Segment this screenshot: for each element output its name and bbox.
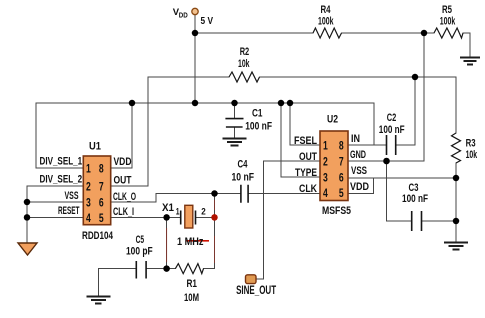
svg-text:2: 2 <box>86 181 91 193</box>
wire C5 right lead to R1 left node <box>146 268 167 270</box>
junction node rail/FSEL <box>287 100 294 107</box>
junction node rail/C1 <box>231 100 238 107</box>
wire R5 leads and drop to ground <box>424 33 470 56</box>
svg-text:DIV_SEL_2: DIV_SEL_2 <box>40 174 83 186</box>
resistor R5 100k <box>434 28 463 38</box>
svg-text:100 nF: 100 nF <box>379 124 405 136</box>
resistor R3 10k <box>452 133 461 163</box>
resistor R1 10M <box>175 264 203 274</box>
wire U1 OUT riser <box>111 77 148 186</box>
svg-text:4: 4 <box>86 213 91 225</box>
svg-text:6: 6 <box>99 197 104 209</box>
svg-text:X1: X1 <box>162 202 174 214</box>
svg-text:5: 5 <box>339 188 344 200</box>
junction node y77/C2 branch <box>412 74 419 81</box>
svg-text:RDD104: RDD104 <box>82 230 114 242</box>
svg-text:2: 2 <box>201 207 206 218</box>
junction node rail/VDD stem <box>192 100 199 107</box>
junction node CLK line/C4 <box>211 190 218 197</box>
svg-text:100 pF: 100 pF <box>126 246 153 258</box>
wire C5 left lead down to ground <box>98 269 136 296</box>
junction node rail/TYPE <box>278 100 285 107</box>
wire U2 VDD pin up to VSS line <box>348 178 374 194</box>
IC U1 RDD104 body <box>83 156 110 225</box>
wire R3 bottom to ground <box>455 163 457 242</box>
svg-text:CLK_I: CLK_I <box>113 206 134 218</box>
wire C2 right to R2/R3 line <box>396 77 415 145</box>
junction node rail/U1 VDD <box>129 100 136 107</box>
svg-text:10M: 10M <box>184 292 199 304</box>
ground below C1 <box>223 139 247 146</box>
wire C4 left lead <box>215 193 241 195</box>
svg-text:100 nF: 100 nF <box>402 193 428 205</box>
junction node R4/R5 <box>421 30 428 37</box>
junction node DIV_SEL_2/VSS <box>24 199 31 206</box>
svg-text:CLK_O: CLK_O <box>113 191 136 203</box>
svg-text:DD: DD <box>179 10 188 19</box>
svg-text:100k: 100k <box>318 16 334 28</box>
svg-text:R4: R4 <box>321 4 332 16</box>
wire U2 GND node down to C3 left <box>387 161 412 221</box>
svg-text:3: 3 <box>86 197 91 209</box>
svg-text:7: 7 <box>339 157 344 169</box>
svg-text:10k: 10k <box>466 149 478 161</box>
wire rail to U2 TYPE pin <box>281 103 320 177</box>
port SINE_OUT pad <box>246 275 257 284</box>
svg-text:VSS: VSS <box>65 190 79 202</box>
svg-text:CLK: CLK <box>299 183 317 195</box>
svg-text:SINE_OUT: SINE_OUT <box>236 283 276 297</box>
wire R4 right to R4/R5 junction <box>342 32 425 34</box>
red highlight on MHz label <box>186 240 209 242</box>
junction node VSS/RESET <box>24 214 31 221</box>
svg-text:C5: C5 <box>136 234 145 246</box>
svg-text:8: 8 <box>99 163 104 175</box>
svg-text:OUT: OUT <box>299 151 317 163</box>
svg-text:2: 2 <box>323 157 328 169</box>
junction node C3 right/ground <box>453 218 460 225</box>
svg-text:TYPE: TYPE <box>295 167 317 179</box>
wire X1 left node down to R1 left <box>166 217 168 268</box>
crystal X1 plates <box>181 211 196 225</box>
svg-text:100k: 100k <box>440 16 456 28</box>
junction node GND/C3 branch <box>383 158 390 165</box>
svg-text:GND: GND <box>350 149 366 161</box>
wire U1 VSS <box>27 201 83 203</box>
svg-text:C4: C4 <box>238 159 249 171</box>
wire y77 R2 to R3 corner <box>260 77 457 133</box>
svg-text:8: 8 <box>339 141 344 153</box>
svg-text:5: 5 <box>99 213 104 225</box>
svg-text:3: 3 <box>323 173 328 185</box>
wire y33 from VDD dot to R4 <box>195 32 313 34</box>
wire DIV_SEL_2 to left column <box>27 186 83 243</box>
svg-text:MSFS5: MSFS5 <box>322 205 351 217</box>
svg-text:6: 6 <box>339 173 344 185</box>
wire VDD rail y103 <box>36 102 374 104</box>
wire C3 right to ground node <box>422 220 457 222</box>
junction node VSS/R3 bottom <box>453 175 460 182</box>
svg-text:FSEL: FSEL <box>294 135 317 147</box>
power port VDD circle <box>192 8 198 14</box>
wire U1 CLK_I to X1 <box>111 216 181 218</box>
svg-text:DIV_SEL_1: DIV_SEL_1 <box>40 156 83 168</box>
wire rail to U1 VDD pin <box>111 103 132 168</box>
svg-text:10 nF: 10 nF <box>232 172 255 184</box>
svg-text:100 nF: 100 nF <box>245 121 272 133</box>
wire U1 CLK_O jog <box>111 194 215 203</box>
wire U1 RESET <box>27 216 83 218</box>
svg-text:R5: R5 <box>442 4 452 16</box>
red artifact on X1 left vertical <box>166 228 168 262</box>
ground below R3 / C3 <box>444 243 468 250</box>
svg-text:VDD: VDD <box>350 181 369 193</box>
crystal X1 body <box>185 205 193 228</box>
wire U2 OUT down to SINE_OUT <box>256 161 320 279</box>
svg-text:U1: U1 <box>89 141 101 153</box>
svg-text:1: 1 <box>323 141 328 153</box>
svg-text:R3: R3 <box>466 138 476 150</box>
svg-text:IN: IN <box>351 133 360 145</box>
capacitor C3 plates <box>412 211 422 231</box>
svg-text:1: 1 <box>86 163 91 175</box>
svg-text:VDD: VDD <box>114 156 132 168</box>
svg-text:R2: R2 <box>240 46 250 58</box>
junction node C5/R1 <box>163 265 170 272</box>
svg-text:OUT: OUT <box>114 175 132 187</box>
wire rail to U2 FSEL pin <box>290 103 320 145</box>
capacitor C1 plates <box>225 119 243 127</box>
junction node X1 right (red) <box>211 214 218 221</box>
svg-text:1: 1 <box>176 207 180 218</box>
junction node X1 left <box>163 214 170 221</box>
wire C1 stem <box>234 103 236 138</box>
wire U2 VSS pin to R3 bottom <box>348 177 456 179</box>
IC U2 MSFS5 body <box>320 131 348 201</box>
wire y77 line left of R2 <box>148 76 229 78</box>
red artifact on X1 right vertical <box>214 200 216 263</box>
wire rail end drop to IN line <box>373 103 375 145</box>
svg-text:C1: C1 <box>252 108 263 120</box>
svg-text:1 MHz: 1 MHz <box>177 236 204 248</box>
ground arrow below U1 left pins <box>18 243 37 255</box>
svg-text:VSS: VSS <box>351 165 367 177</box>
svg-text:4: 4 <box>323 188 328 200</box>
wire C4 node down to R1 right <box>214 194 216 269</box>
capacitor C5 plates <box>136 261 146 279</box>
wire U2 IN pin to C2 <box>348 144 387 146</box>
svg-text:C2: C2 <box>387 112 397 124</box>
svg-text:5 V: 5 V <box>201 16 214 27</box>
svg-text:10k: 10k <box>238 58 250 70</box>
wire R1 leads <box>167 268 215 270</box>
svg-text:U2: U2 <box>327 114 338 126</box>
svg-text:RESET: RESET <box>58 205 80 217</box>
wire X1 right lead <box>196 216 215 218</box>
wire C4 right lead to U2 CLK <box>248 193 320 195</box>
resistor R2 10k <box>229 72 260 82</box>
junction node on VDD stem y33 <box>192 30 199 37</box>
capacitor C2 plates <box>387 135 396 155</box>
svg-text:7: 7 <box>99 181 104 193</box>
resistor R4 100k <box>313 28 342 38</box>
ground below R5 <box>460 58 480 65</box>
ground below C5 <box>87 297 111 304</box>
capacitor C4 plates <box>241 185 248 203</box>
wire VDD stem down to rail <box>194 15 196 103</box>
wire rail to DIV_SEL_1 <box>36 103 83 168</box>
svg-text:R1: R1 <box>187 278 198 290</box>
wire junction R4/R5 down to U2 GND line <box>348 33 424 161</box>
